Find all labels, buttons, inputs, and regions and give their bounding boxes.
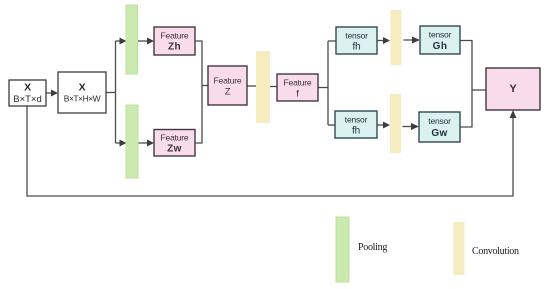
wire Zh/Zw merge into Feature Z bbox=[195, 41, 208, 143]
wire feedback from X box bottom, along bottom, up into Y bbox=[27, 106, 513, 196]
wire Feature f to branch node 2 bbox=[318, 87, 328, 89]
wire box2 to branch node bbox=[106, 92, 116, 94]
arrowhead into convolution bar 3 bbox=[383, 122, 390, 129]
svg-text:B×T×d: B×T×d bbox=[13, 94, 42, 105]
arrowhead into tensor Gh bbox=[412, 37, 420, 44]
arrowhead into pooling bar 1 bbox=[120, 38, 127, 45]
svg-text:Zh: Zh bbox=[168, 42, 181, 53]
svg-text:Zw: Zw bbox=[167, 144, 182, 155]
svg-text:tensor: tensor bbox=[345, 115, 368, 125]
svg-text:Convolution: Convolution bbox=[472, 246, 519, 257]
svg-text:Gh: Gh bbox=[433, 41, 448, 52]
legend pooling bar bbox=[336, 217, 349, 282]
wire branch 2 to tensor fh top bbox=[328, 40, 336, 42]
svg-text:tensor: tensor bbox=[428, 116, 451, 126]
wire tensor fh bottom to convolution bar 3 bbox=[377, 124, 384, 126]
arrowhead into convolution bar 2 bbox=[383, 37, 390, 44]
svg-text:Gw: Gw bbox=[431, 128, 447, 139]
arrowhead into tensor Gw bbox=[411, 123, 419, 130]
wire pooling bar 2 to Feature Zw bbox=[138, 142, 148, 144]
box Feature Zh bbox=[154, 27, 195, 55]
svg-text:Y: Y bbox=[509, 83, 517, 95]
box X B×T×d bbox=[9, 80, 46, 106]
pooling bar 2 bbox=[126, 105, 138, 178]
svg-text:X: X bbox=[79, 82, 86, 94]
convolution bar 3 bbox=[390, 94, 401, 153]
wire branch 2 to tensor fh bottom bbox=[328, 124, 335, 126]
svg-text:Feature: Feature bbox=[214, 76, 242, 86]
arrowhead into Feature Zh bbox=[147, 38, 154, 45]
svg-text:Z: Z bbox=[225, 87, 231, 98]
svg-text:fh: fh bbox=[352, 126, 360, 137]
arrowhead feedback into Y bottom bbox=[510, 110, 517, 118]
box X B×T×H×W bbox=[58, 72, 106, 113]
legend convolution bar bbox=[454, 222, 465, 275]
wire branch to pooling bar 2 bbox=[116, 142, 121, 144]
wire Gh/Gw merge into Y bbox=[460, 41, 486, 128]
box tensor Gh bbox=[420, 26, 460, 54]
box tensor fh top bbox=[336, 27, 377, 54]
arrowhead into pooling bar 2 bbox=[120, 140, 127, 147]
svg-text:tensor: tensor bbox=[429, 30, 452, 40]
wire tensor fh top to convolution bar 2 bbox=[377, 40, 384, 42]
svg-text:B×T×H×W: B×T×H×W bbox=[64, 94, 101, 104]
svg-text:X: X bbox=[24, 82, 31, 94]
box tensor fh bottom bbox=[335, 111, 377, 138]
arrowhead into box2 bbox=[51, 90, 58, 97]
wire convolution bar to Feature f bbox=[270, 86, 277, 88]
wire box1 to box2 bbox=[46, 92, 53, 94]
svg-text:Feature: Feature bbox=[161, 31, 189, 41]
box Feature Z bbox=[208, 66, 247, 105]
svg-text:Feature: Feature bbox=[284, 78, 312, 88]
arrowhead into Feature Zw bbox=[147, 140, 154, 147]
wire Feature Z to convolution bar bbox=[247, 85, 256, 87]
wire convolution bar 3 to tensor Gw bbox=[403, 126, 412, 128]
wire branch 2 vertical bbox=[327, 41, 329, 125]
svg-text:tensor: tensor bbox=[345, 31, 368, 41]
svg-text:Pooling: Pooling bbox=[358, 242, 387, 253]
wire branch to pooling bar 1 bbox=[116, 40, 121, 42]
svg-text:Feature: Feature bbox=[161, 133, 189, 143]
svg-text:fh: fh bbox=[353, 42, 361, 53]
pooling bar 1 bbox=[126, 5, 138, 74]
wire pooling bar 1 to Feature Zh bbox=[138, 40, 148, 42]
wire branch vertical bbox=[115, 41, 117, 143]
box Feature Zw bbox=[154, 130, 195, 157]
box Feature f bbox=[277, 74, 318, 101]
box Y bbox=[486, 68, 540, 110]
convolution bar 1 bbox=[256, 51, 270, 123]
convolution bar 2 bbox=[391, 10, 402, 65]
wire convolution bar 2 to tensor Gh bbox=[404, 39, 413, 41]
box tensor Gw bbox=[419, 112, 460, 142]
